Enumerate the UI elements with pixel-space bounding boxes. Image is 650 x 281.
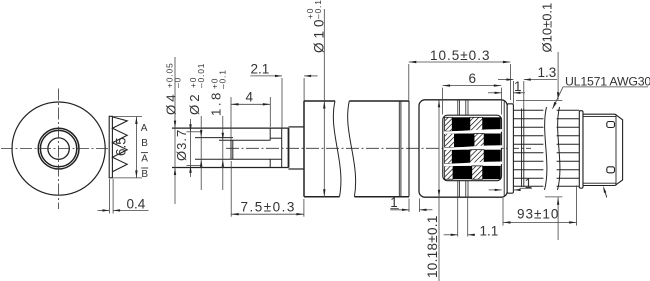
leader arrow under connector (603, 186, 606, 193)
terminal comb zigzag (112, 117, 127, 172)
svg-text:Ø10: Ø10 (312, 15, 327, 53)
svg-text:0.4: 0.4 (127, 197, 146, 212)
dimension 1 (bottom left) extension lines (408, 199, 410, 213)
dimension 93±10 line (503, 221, 577, 223)
boss outer top outline (289, 126, 305, 128)
flat end step / sleeve face upper (269, 128, 271, 140)
body break curve 2 (348, 101, 356, 197)
connector flange (579, 111, 583, 189)
washer left face (281, 128, 283, 167)
main centerline of shaft/body (226, 147, 531, 149)
dimension text 1.8 +0/-0.1 (rotated) (209, 69, 228, 116)
dimension 6.5 extension lines (112, 116, 142, 118)
dimension dia3.7 line (190, 119, 192, 177)
pad row 3 (445, 150, 501, 164)
shaft end face (230, 140, 232, 159)
magnet wire over pads 2 (444, 147, 503, 149)
svg-text:Ø2: Ø2 (187, 91, 202, 115)
cap seam line (503, 102, 505, 196)
dimension text dia10 +0/-0.1 (rotated) (305, 0, 327, 53)
dimension 1 (bottom left) line (390, 209, 409, 211)
dia 3.7 extension line bottom (187, 164, 201, 166)
cable break curve 2 (558, 107, 560, 190)
pad row 4 (445, 166, 501, 179)
magnet wire over pads 3 (444, 163, 503, 165)
can end face (408, 101, 410, 197)
dimension 7.5±0.3 extension lines (230, 161, 232, 217)
extension line block right corner (501, 88, 503, 115)
svg-text:A: A (141, 123, 148, 134)
body bottom outline segments (304, 196, 340, 198)
svg-text:93±10: 93±10 (517, 207, 559, 222)
FPC tab above block (457, 100, 459, 115)
svg-text:1.3: 1.3 (538, 65, 557, 80)
dimension dia10±0.1 (right) extension lines (516, 99, 562, 101)
svg-text:B: B (141, 138, 148, 149)
svg-text:–0: –0 (173, 77, 183, 88)
dimension 10.5±0.3 line (409, 61, 511, 63)
shaft boss outline (dia 4) bottom (172, 167, 289, 169)
dimension 4 extension lines (230, 97, 232, 140)
wire sheath lines (521, 109, 523, 188)
dimension 1.1 extension lines (457, 198, 459, 237)
cable break curve 1 (545, 107, 547, 190)
dimension 1 (bottom right) line (489, 189, 502, 191)
boss outer bottom outline (289, 168, 305, 170)
motor outline circle (12, 102, 105, 195)
svg-text:–0.1: –0.1 (313, 0, 323, 19)
connector housing (583, 114, 623, 185)
bearing ring inner circle (40, 130, 76, 166)
svg-text:1: 1 (390, 195, 398, 210)
washer right face (thick) (288, 128, 290, 167)
extension line sheath start (523, 81, 525, 110)
svg-text:4: 4 (246, 90, 254, 105)
svg-text:Ø3.7: Ø3.7 (174, 129, 189, 161)
vertical centerline (58, 89, 60, 210)
body left face (303, 101, 305, 197)
svg-text:Ø10±0.1: Ø10±0.1 (540, 3, 555, 53)
dimension 1.3 line (498, 79, 513, 81)
svg-text:1.8: 1.8 (209, 90, 224, 116)
FPC pad block outline (443, 115, 502, 181)
dimension 1.1 line (444, 234, 458, 236)
dimension 1.8 line (222, 116, 224, 190)
extension line cap plate right (512, 81, 514, 104)
svg-text:10.18±0.1: 10.18±0.1 (425, 215, 440, 278)
body top outline segments (304, 100, 335, 102)
svg-text:10.5±0.3: 10.5±0.3 (430, 48, 490, 63)
shaft boss outline (dia 4) top (172, 127, 289, 129)
dimension 93±10 extension lines (502, 198, 504, 226)
svg-text:1.1: 1.1 (480, 224, 499, 239)
svg-text:B: B (141, 169, 148, 180)
pad row 1 (445, 117, 501, 131)
FPC tab below block (457, 181, 459, 197)
dimension text dia4 +0.05/-0 (rotated) (164, 62, 183, 115)
dimension 2.1 line with outside arrows (250, 75, 282, 77)
dimension 10.5±0.3 extension lines (408, 64, 410, 101)
svg-text:–0.1: –0.1 (218, 69, 228, 89)
dimension 10.18±0.1 line (438, 100, 440, 281)
shaft flat line (219, 139, 270, 141)
dimension 4 line (231, 103, 270, 105)
svg-text:2.1: 2.1 (251, 62, 270, 77)
dimension dia10±0.1 line (557, 52, 559, 100)
shaft dia2 top outline / extension (195, 137, 233, 139)
connector latch hole bottom (607, 167, 615, 173)
shaft dia2 bottom outline (195, 158, 282, 160)
dimension text dia2 +0/-0.01 (rotated) (187, 63, 206, 115)
connector housing inner lines (583, 116, 616, 118)
dimension dia2 line (200, 116, 202, 190)
pad row 2 (445, 134, 501, 148)
shaft dia2 top outline right of flat (270, 137, 282, 139)
wire lines left of break (513, 110, 543, 186)
dimension 2.1 extension lines (281, 78, 283, 128)
svg-text:A: A (141, 154, 148, 165)
wire lines right of break (557, 110, 580, 186)
svg-text:UL1571 AWG30: UL1571 AWG30 (565, 75, 650, 89)
cap end plate (507, 104, 513, 193)
svg-text:7.5±0.3: 7.5±0.3 (241, 199, 296, 214)
svg-text:6.5: 6.5 (114, 137, 129, 156)
magnet wire over pads 1 (444, 130, 503, 132)
dimension dia4 line (174, 57, 176, 204)
shaft bore circle (48, 138, 69, 159)
UL label leader line (563, 86, 648, 88)
dia 3.7 extension line top (187, 131, 201, 133)
dimension 7.5±0.3 line (231, 213, 304, 215)
shaft tip chamfer line (232, 140, 234, 159)
end cap rounded outline (419, 100, 507, 197)
dimension 6.5 line with arrows (135, 117, 137, 178)
sleeve face lower (269, 159, 271, 167)
svg-text:Ø4: Ø4 (164, 91, 179, 115)
svg-text:–0.01: –0.01 (196, 63, 206, 88)
can crimp lines (398, 101, 400, 197)
svg-text:1: 1 (514, 79, 522, 94)
connector latch hole top (607, 122, 615, 128)
svg-text:6: 6 (469, 71, 477, 86)
dimension 0.4 line with arrows (98, 209, 110, 211)
dimension 6 line (443, 85, 502, 87)
dimension 1 (top) line (488, 92, 502, 94)
dimension dia10 +0/-0.1 line (left) (323, 9, 325, 197)
FPC bar (109, 116, 112, 178)
svg-text:1: 1 (525, 176, 533, 191)
horizontal centerline (1, 148, 115, 150)
bearing ring outer circle (38, 128, 79, 169)
dimension 0.4 extension lines (108, 179, 110, 214)
dimension 6 extension line left (442, 88, 444, 115)
body break curve 1 (333, 101, 341, 197)
